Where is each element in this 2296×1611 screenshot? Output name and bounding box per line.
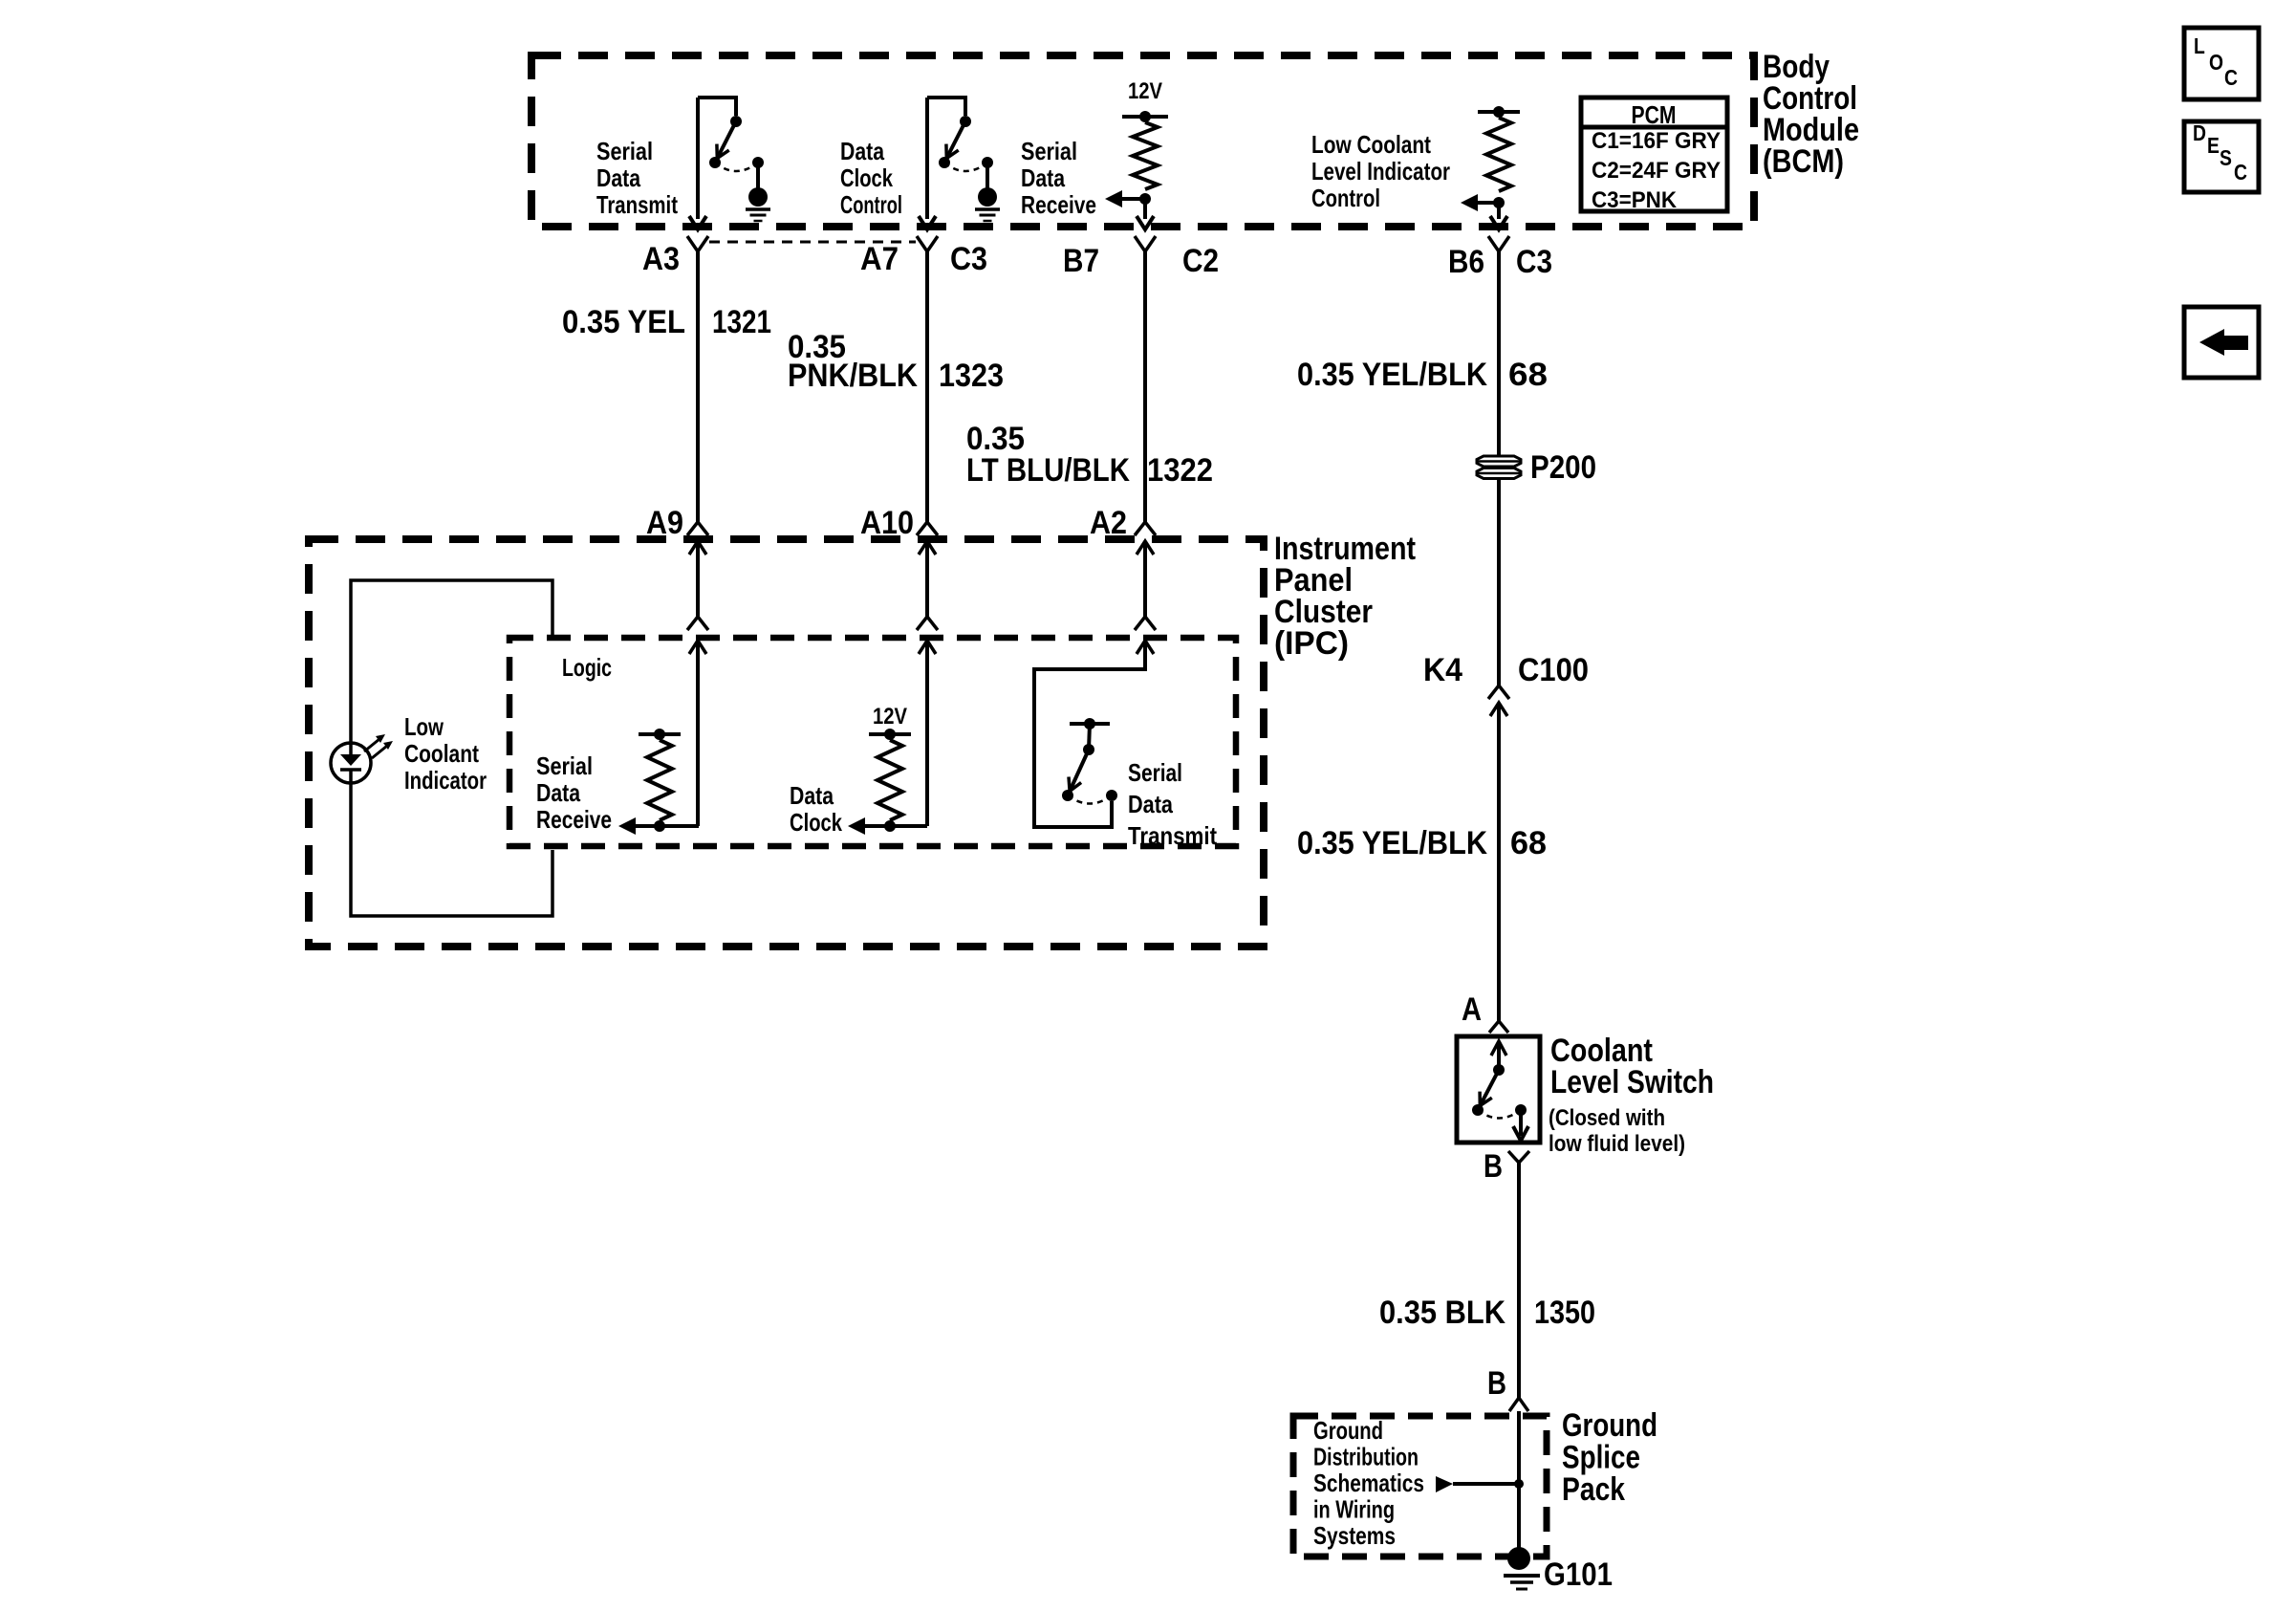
svg-text:Splice: Splice xyxy=(1562,1440,1640,1476)
svg-text:Level Indicator: Level Indicator xyxy=(1311,157,1450,185)
svg-text:Receive: Receive xyxy=(1021,190,1096,219)
svg-text:S: S xyxy=(2220,145,2232,170)
svg-text:C3: C3 xyxy=(1516,244,1552,280)
svg-text:Data: Data xyxy=(1128,790,1173,818)
svg-text:Receive: Receive xyxy=(536,805,612,834)
svg-text:Systems: Systems xyxy=(1313,1521,1396,1550)
svg-text:O: O xyxy=(2209,50,2223,75)
svg-text:Schematics: Schematics xyxy=(1313,1469,1424,1497)
svg-text:1323: 1323 xyxy=(939,358,1004,394)
svg-text:Level Switch: Level Switch xyxy=(1550,1064,1714,1100)
svg-text:C: C xyxy=(2224,65,2238,90)
svg-text:0.35 YEL/BLK: 0.35 YEL/BLK xyxy=(1297,357,1487,393)
svg-text:low fluid level): low fluid level) xyxy=(1549,1131,1685,1157)
svg-text:C1=16F GRY: C1=16F GRY xyxy=(1592,128,1721,154)
svg-text:C3: C3 xyxy=(950,241,987,277)
svg-text:A10: A10 xyxy=(860,505,914,541)
svg-text:G101: G101 xyxy=(1544,1557,1613,1593)
svg-text:Transmit: Transmit xyxy=(1128,821,1217,850)
svg-text:Distribution: Distribution xyxy=(1313,1443,1419,1471)
svg-text:C: C xyxy=(2234,160,2247,185)
svg-text:Data: Data xyxy=(790,781,834,810)
svg-text:Serial: Serial xyxy=(1128,758,1182,787)
svg-text:P200: P200 xyxy=(1530,449,1596,486)
svg-text:C2=24F GRY: C2=24F GRY xyxy=(1592,158,1721,184)
svg-text:Control: Control xyxy=(840,190,902,219)
svg-text:C3=PNK: C3=PNK xyxy=(1592,187,1678,213)
svg-text:A7: A7 xyxy=(860,241,899,277)
svg-text:A3: A3 xyxy=(642,241,680,277)
svg-text:Coolant: Coolant xyxy=(404,739,479,768)
svg-text:Pack: Pack xyxy=(1562,1471,1625,1508)
svg-text:0.35 BLK: 0.35 BLK xyxy=(1379,1295,1505,1331)
svg-text:Serial: Serial xyxy=(536,751,593,780)
svg-text:Clock: Clock xyxy=(790,808,842,837)
svg-text:Low Coolant: Low Coolant xyxy=(1311,130,1431,159)
svg-text:Transmit: Transmit xyxy=(596,190,678,219)
svg-text:in Wiring: in Wiring xyxy=(1313,1495,1395,1524)
svg-text:(IPC): (IPC) xyxy=(1274,625,1349,662)
svg-text:L: L xyxy=(2194,33,2205,58)
svg-text:Data: Data xyxy=(536,778,580,807)
svg-text:0.35 YEL/BLK: 0.35 YEL/BLK xyxy=(1297,825,1487,861)
svg-text:1350: 1350 xyxy=(1534,1295,1595,1331)
svg-text:A9: A9 xyxy=(646,505,683,541)
svg-text:Data: Data xyxy=(596,163,640,192)
svg-text:1322: 1322 xyxy=(1147,452,1213,489)
svg-text:K4: K4 xyxy=(1423,652,1462,688)
svg-text:Logic: Logic xyxy=(562,653,612,682)
svg-text:1321: 1321 xyxy=(712,304,771,340)
svg-text:Ground: Ground xyxy=(1313,1416,1383,1445)
svg-text:Low: Low xyxy=(404,712,444,741)
svg-text:12V: 12V xyxy=(873,704,907,729)
svg-text:C2: C2 xyxy=(1182,243,1219,279)
svg-text:A2: A2 xyxy=(1090,505,1127,541)
svg-text:Clock: Clock xyxy=(840,163,893,192)
svg-text:Data: Data xyxy=(840,137,884,165)
svg-text:Control: Control xyxy=(1311,184,1380,212)
svg-text:D: D xyxy=(2193,120,2206,145)
svg-text:PNK/BLK: PNK/BLK xyxy=(788,358,918,394)
svg-text:C100: C100 xyxy=(1518,652,1589,688)
svg-text:B: B xyxy=(1487,1365,1506,1402)
svg-text:68: 68 xyxy=(1510,825,1547,861)
svg-text:B: B xyxy=(1484,1148,1503,1185)
svg-text:B7: B7 xyxy=(1063,243,1099,279)
svg-text:(BCM): (BCM) xyxy=(1763,143,1844,180)
svg-text:Indicator: Indicator xyxy=(404,766,487,795)
svg-text:0.35 YEL: 0.35 YEL xyxy=(562,304,685,340)
svg-text:PCM: PCM xyxy=(1632,100,1677,129)
svg-text:LT BLU/BLK: LT BLU/BLK xyxy=(966,452,1130,489)
svg-text:A: A xyxy=(1462,991,1482,1028)
svg-text:Serial: Serial xyxy=(1021,137,1077,165)
svg-text:Serial: Serial xyxy=(596,137,653,165)
svg-text:(Closed with: (Closed with xyxy=(1549,1105,1665,1131)
svg-text:Data: Data xyxy=(1021,163,1065,192)
svg-text:Ground: Ground xyxy=(1562,1407,1657,1444)
svg-text:B6: B6 xyxy=(1448,244,1484,280)
svg-text:68: 68 xyxy=(1508,357,1548,393)
svg-text:E: E xyxy=(2207,133,2220,158)
svg-text:12V: 12V xyxy=(1128,78,1162,104)
